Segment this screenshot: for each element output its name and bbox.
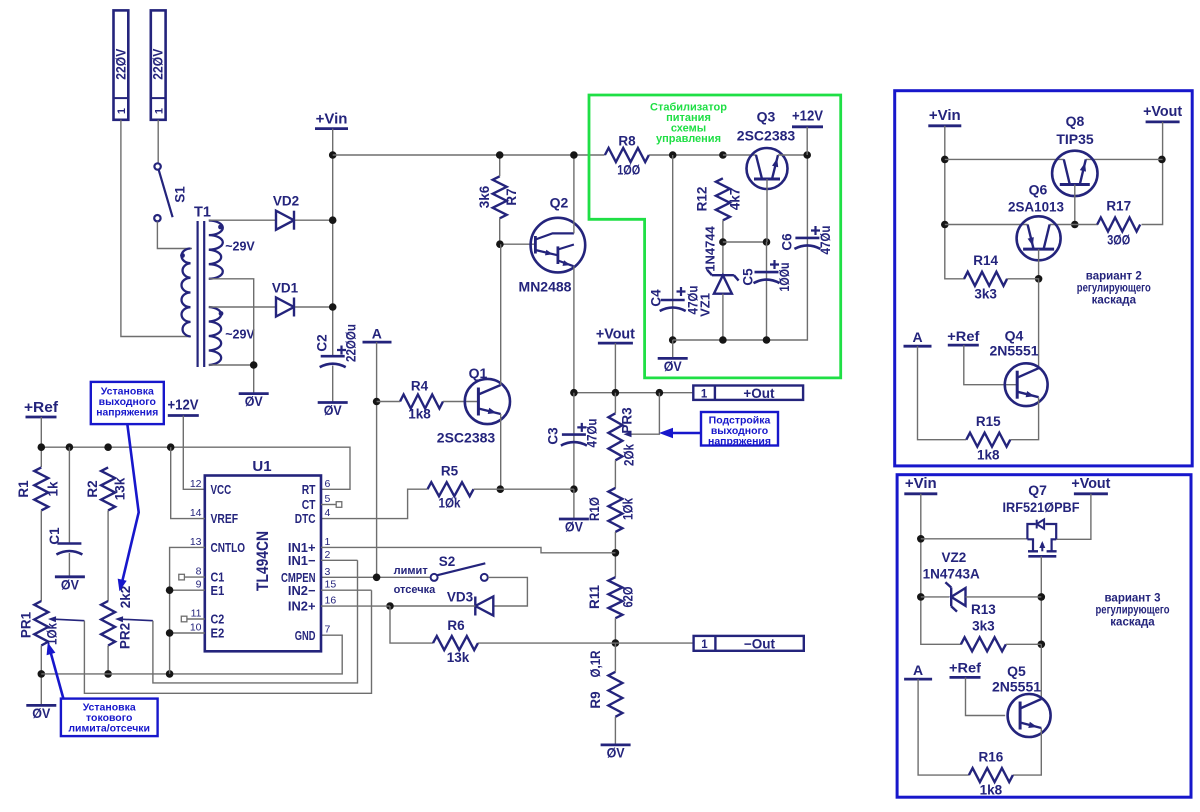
wire +Ref rail to RT <box>41 447 350 489</box>
potentiometer PR2 2k2 <box>101 586 133 649</box>
svg-text:MN2488: MN2488 <box>519 279 572 295</box>
node A box1 <box>904 329 932 346</box>
resistor R15 1k8 <box>966 414 1010 463</box>
svg-text:−Out: −Out <box>744 636 776 651</box>
junction E1 <box>166 586 174 594</box>
svg-text:15: 15 <box>325 579 337 591</box>
capacitor C3 470u <box>546 393 600 490</box>
svg-text:VD2: VD2 <box>273 194 299 209</box>
junction +Out Vout <box>612 389 620 397</box>
junction Ref C1 <box>66 443 74 451</box>
wire winding1 to VD2 <box>209 219 276 221</box>
svg-text:регулирующего: регулирующего <box>1077 282 1151 294</box>
wire R2 bottom to PR2 <box>107 510 109 601</box>
svg-text:+Vout: +Vout <box>1143 103 1182 120</box>
wire E2 stub <box>170 632 205 634</box>
resistor R11 620 <box>587 577 636 618</box>
svg-text:1Øk: 1Øk <box>621 498 636 520</box>
svg-text:1ØØu: 1ØØu <box>777 263 792 292</box>
wire PR1 wiper to IN2- <box>84 590 371 693</box>
wire R5 right <box>474 488 574 490</box>
svg-text:S2: S2 <box>439 554 456 569</box>
junction +Vin rail <box>329 151 337 159</box>
svg-text:VD1: VD1 <box>272 281 299 296</box>
node +Ref main <box>24 399 59 417</box>
junction box1 Vout rail1 <box>1158 156 1166 164</box>
svg-text:1k8: 1k8 <box>977 448 1000 463</box>
wire PR3 wiper <box>630 393 659 435</box>
wire IN1+ to R10 R11 junction <box>321 547 615 552</box>
wire +Vin box1 down <box>945 126 965 279</box>
svg-text:R16: R16 <box>979 750 1004 765</box>
wire Q6 base down <box>1038 249 1040 279</box>
wire Q7 gate down <box>1040 556 1042 644</box>
wire +Vin vertical <box>332 129 334 357</box>
wire Q5 emitter down to R16 <box>1013 728 1041 775</box>
wire IN2+ to VD3 node <box>321 605 390 607</box>
wire VZ1 to bottom rail <box>722 294 724 340</box>
wire X2 to switch S1 <box>157 120 159 163</box>
junction C3 bottom R5 <box>570 485 578 493</box>
svg-text:Q5: Q5 <box>1007 663 1026 679</box>
capacitor C2 2200u <box>315 324 359 367</box>
junction PR2 gnd rail <box>104 670 112 678</box>
svg-text:3: 3 <box>325 566 331 578</box>
svg-text:ØV: ØV <box>664 358 683 374</box>
svg-text:16: 16 <box>325 595 337 607</box>
wire IN2- down <box>321 589 372 591</box>
transistor Q4 2N5551 <box>989 328 1047 407</box>
connector X1 220V <box>113 10 128 119</box>
wire +Out rail <box>574 392 693 394</box>
junction box2 Vin VZ2 <box>917 593 925 601</box>
svg-text:лимита/отсечки: лимита/отсечки <box>68 723 150 735</box>
resistor R10 10k <box>587 488 636 532</box>
svg-text:IN2−: IN2− <box>288 583 316 598</box>
svg-text:2N5551: 2N5551 <box>992 679 1041 695</box>
svg-text:лимит: лимит <box>394 565 429 577</box>
diode VD1 <box>272 281 299 317</box>
junction Q1 emitter R5 <box>497 485 505 493</box>
svg-text:4k7: 4k7 <box>728 188 743 211</box>
svg-text:A: A <box>913 662 923 678</box>
node +Vout box2 <box>1071 475 1110 494</box>
svg-text:A: A <box>372 325 382 341</box>
box variant 2 outline <box>895 91 1192 466</box>
svg-text:47Øu: 47Øu <box>818 226 833 255</box>
svg-text:Q6: Q6 <box>1029 182 1048 198</box>
node +12V left <box>168 396 199 415</box>
wire -Out rail <box>615 642 693 644</box>
svg-text:1ØØ: 1ØØ <box>617 163 640 178</box>
svg-text:Ø,1R: Ø,1R <box>588 650 603 677</box>
wire VREF to Ref rail <box>171 447 205 518</box>
svg-text:DTC: DTC <box>295 511 316 526</box>
resistor R14 3k3 <box>964 253 1007 301</box>
wire A box1 to R15 <box>918 346 967 440</box>
U1 right pin labels <box>281 482 316 643</box>
junction C4 bottom rail <box>669 336 677 344</box>
wire R10 bottom <box>614 532 616 577</box>
svg-text:+Vout: +Vout <box>1071 475 1110 492</box>
svg-text:R5: R5 <box>441 464 459 479</box>
junction Q8 base rail2 <box>1071 221 1079 229</box>
junction VZ1 bottom <box>719 336 727 344</box>
junction +12V rail <box>803 151 811 159</box>
wire R1 bottom to PR1 <box>40 510 42 601</box>
svg-text:8: 8 <box>196 566 202 578</box>
svg-text:Q4: Q4 <box>1005 328 1024 344</box>
junction Ref R1 <box>38 443 46 451</box>
svg-text:IN1−: IN1− <box>288 553 316 568</box>
wire R14 right to Q4 collector <box>1007 279 1038 368</box>
ground 0V C2 <box>318 401 348 404</box>
wire R8 right to C4 node <box>649 154 723 156</box>
resistor R1 1k <box>16 467 61 510</box>
svg-text:ØV: ØV <box>324 402 343 418</box>
wire node A down to CMPEN <box>376 342 378 577</box>
wire S2 to VD3 anode <box>488 577 528 606</box>
wire CNTLO E1 E2 chain <box>170 547 205 674</box>
svg-text:PR3: PR3 <box>620 407 635 434</box>
svg-text:+Vin: +Vin <box>905 475 937 492</box>
wire box1 rail1 right <box>1086 158 1163 160</box>
svg-text:+Vin: +Vin <box>929 107 961 124</box>
wire Q3 emitter to +12V node <box>778 154 807 156</box>
svg-text:22ØV: 22ØV <box>113 49 128 80</box>
svg-text:R9: R9 <box>588 691 603 708</box>
svg-text:+Ref: +Ref <box>947 328 979 344</box>
capacitor C4 470u <box>649 155 701 340</box>
junction box2 Vin Q7 <box>917 535 925 543</box>
svg-text:1: 1 <box>116 108 128 114</box>
svg-text:3k6: 3k6 <box>477 185 492 208</box>
wire +Ref box1 to Q4 base <box>964 345 1017 385</box>
wire VZ2 left <box>921 596 949 598</box>
wire R13 right <box>1006 643 1041 645</box>
svg-text:R11: R11 <box>587 585 602 610</box>
svg-text:S1: S1 <box>173 186 188 203</box>
wire +Vout box2 to Q7 drain <box>1056 494 1091 540</box>
resistor R2 13k <box>85 467 128 510</box>
wire Q1 collector up to Q2 base node <box>500 244 502 385</box>
capacitor C1 <box>47 447 82 577</box>
node +12V green box <box>792 108 823 127</box>
svg-text:9: 9 <box>196 579 202 591</box>
svg-text:GND: GND <box>295 628 316 643</box>
svg-text:~29V: ~29V <box>225 327 255 341</box>
connector +Out <box>693 386 803 401</box>
wire IN1- down <box>321 559 358 561</box>
node A main <box>363 325 392 342</box>
svg-text:PR1: PR1 <box>19 611 34 638</box>
svg-text:3k3: 3k3 <box>974 286 997 301</box>
wire VZ2 right to gate <box>966 596 1042 598</box>
wire gate node down to Q5 collector <box>1040 644 1042 698</box>
svg-text:11: 11 <box>191 608 202 620</box>
junction +Out PR3 wiper <box>656 389 664 397</box>
junction Ref VREF <box>167 443 175 451</box>
wire E1 stub <box>170 589 205 591</box>
junction CMPEN node A <box>373 574 381 582</box>
junction Q2 collector rail <box>570 151 578 159</box>
svg-text:7: 7 <box>325 624 331 636</box>
wire S1 to transformer primary top <box>157 221 192 248</box>
wire IN2+ node down to R6 <box>390 606 433 643</box>
U1 pin 8 C1 nc <box>179 574 205 580</box>
svg-text:C5: C5 <box>741 268 756 286</box>
wire Q1 emitter down <box>500 414 502 489</box>
wire box1 rail1 left <box>945 158 1064 160</box>
svg-text:R1: R1 <box>16 480 31 498</box>
transistor Q7 IRF5210PBF mosfet <box>1003 482 1080 557</box>
svg-text:VD3: VD3 <box>447 590 474 605</box>
svg-text:1N4744: 1N4744 <box>703 225 718 271</box>
svg-text:каскада: каскада <box>1110 616 1155 628</box>
node +Ref box1 <box>947 328 979 345</box>
wire Q7 source rail <box>921 538 1028 540</box>
svg-text:62Ø: 62Ø <box>621 587 636 608</box>
svg-text:13k: 13k <box>447 650 470 665</box>
svg-text:управления: управления <box>656 133 721 145</box>
svg-text:3ØØ: 3ØØ <box>1107 233 1130 248</box>
IC U1 TL494CN box <box>205 458 321 651</box>
svg-text:ØV: ØV <box>32 705 51 721</box>
svg-text:TIP35: TIP35 <box>1056 131 1094 147</box>
wire winding2 bottom to center tap <box>209 365 254 394</box>
zener VZ2 1N4743A <box>923 550 980 612</box>
resistor R16 1k8 <box>969 750 1013 798</box>
ground 0V C1 <box>55 575 85 578</box>
svg-text:C1: C1 <box>47 527 62 545</box>
transistor Q3 2SC2383 <box>737 109 796 190</box>
U1 left pin labels <box>211 482 246 641</box>
wire PR3 bottom to R10 <box>614 460 616 488</box>
svg-text:U1: U1 <box>252 458 271 475</box>
U1 pin numbers left <box>190 478 202 634</box>
svg-text:R13: R13 <box>971 602 996 617</box>
junction rail R12 <box>719 151 727 159</box>
wire +Ref down <box>40 417 42 467</box>
svg-text:3k3: 3k3 <box>972 618 995 633</box>
svg-text:22ØØu: 22ØØu <box>344 324 359 362</box>
callout adjust output voltage <box>659 412 778 447</box>
svg-text:6: 6 <box>325 478 331 490</box>
svg-text:1Øk: 1Øk <box>439 496 461 511</box>
node A box2 <box>904 662 932 679</box>
wire +Vout box1 down <box>1142 122 1163 225</box>
ground 0V PR1 <box>26 704 56 707</box>
diode VD2 <box>273 194 299 230</box>
junction center tap <box>250 361 258 369</box>
wire green box bottom rail <box>673 155 808 340</box>
callout set current limit <box>47 642 158 736</box>
svg-text:R15: R15 <box>976 414 1001 429</box>
resistor R17 300 <box>1097 198 1140 247</box>
ground 0V transformer <box>239 392 269 395</box>
svg-text:E1: E1 <box>211 583 225 598</box>
svg-text:+Vout: +Vout <box>596 325 635 342</box>
ground 0V R9 <box>601 744 631 747</box>
callout set output voltage <box>91 382 164 591</box>
switch S1 <box>154 163 187 221</box>
wire +Ref box2 to Q5 base <box>966 677 1006 715</box>
wire Q8 base down <box>1074 185 1076 225</box>
junction Q2 base node <box>496 240 504 248</box>
svg-text:1k8: 1k8 <box>980 783 1003 798</box>
wire R7 bottom to Q2 base <box>500 218 536 244</box>
transistor Q6 2SA1013 <box>1008 182 1064 261</box>
green box title <box>650 101 727 145</box>
resistor R7 3k6 <box>477 176 519 218</box>
wire Q4 emitter down to R15 <box>1010 397 1038 440</box>
wire X1 to transformer primary bottom <box>121 120 191 337</box>
box variant 3 outline <box>897 475 1191 798</box>
svg-text:12: 12 <box>190 478 202 490</box>
svg-text:+Vin: +Vin <box>316 111 348 128</box>
junction R12 VZ1 node <box>719 238 727 246</box>
U1 pin numbers right <box>325 478 337 636</box>
svg-text:отсечка: отсечка <box>394 584 437 596</box>
svg-text:ØV: ØV <box>565 519 584 535</box>
svg-text:5: 5 <box>325 493 331 505</box>
U1 pin 5 CT nc <box>321 502 342 508</box>
svg-text:1: 1 <box>153 108 165 114</box>
junction Q6 base R14 <box>1035 275 1043 283</box>
wire R4 right to Q1 base <box>443 401 478 403</box>
junction box1 rail2 <box>941 221 949 229</box>
junction E1E2 gnd rail <box>166 670 174 678</box>
capacitor C5 100u <box>741 242 793 340</box>
resistor R9 0,1R <box>588 650 622 717</box>
wire R12 bottom to zener node <box>722 220 724 275</box>
svg-text:R2: R2 <box>85 480 100 497</box>
capacitor C6 470u <box>780 226 834 255</box>
wire R4 left <box>377 401 400 403</box>
wire R5 left to DTC <box>321 489 428 518</box>
PR1 wiper <box>48 616 84 622</box>
wire +Vout down <box>614 343 616 393</box>
svg-text:TL494CN: TL494CN <box>253 531 272 591</box>
svg-text:R7: R7 <box>504 188 519 205</box>
wire +12V to VCC <box>183 416 205 490</box>
junction C5 bottom <box>763 336 771 344</box>
node +Vout box1 <box>1143 103 1182 122</box>
svg-text:R14: R14 <box>973 253 998 268</box>
wire zener node to Q3 base <box>723 241 767 243</box>
svg-text:каскада: каскада <box>1092 294 1137 306</box>
svg-text:1: 1 <box>701 388 708 400</box>
svg-text:2N5551: 2N5551 <box>989 342 1038 358</box>
svg-text:+12V: +12V <box>792 108 823 125</box>
svg-text:R8: R8 <box>618 134 636 149</box>
svg-text:R1Ø: R1Ø <box>587 497 602 521</box>
transistor Q5 2N5551 <box>992 663 1051 737</box>
svg-text:E2: E2 <box>211 626 225 641</box>
svg-text:2: 2 <box>325 549 331 561</box>
wire Q2 emitter down to +Out rail <box>573 266 575 393</box>
PR2 wiper <box>115 616 153 622</box>
junction IN2+ VD3 R6 <box>386 602 394 610</box>
svg-text:ØV: ØV <box>607 744 626 760</box>
svg-text:14: 14 <box>190 507 202 519</box>
junction gate R13 <box>1038 641 1046 649</box>
label variant 3 <box>1096 592 1170 628</box>
transistor Q8 TIP35 <box>1052 113 1097 196</box>
node +Vin box1 <box>928 107 961 126</box>
svg-text:PR2: PR2 <box>118 623 133 649</box>
svg-text:+Ref: +Ref <box>949 659 981 675</box>
svg-text:R6: R6 <box>447 618 465 633</box>
svg-text:вариант 2: вариант 2 <box>1086 270 1142 282</box>
svg-text:C3: C3 <box>546 427 561 445</box>
wire C4 ground stub <box>672 340 674 358</box>
svg-text:~29V: ~29V <box>225 239 255 253</box>
svg-text:2Øk: 2Øk <box>622 444 637 466</box>
wire Q3 base down <box>766 179 768 242</box>
svg-text:VREF: VREF <box>211 511 239 526</box>
svg-text:C4: C4 <box>649 289 664 307</box>
svg-text:IN2+: IN2+ <box>288 599 316 614</box>
svg-text:2SC2383: 2SC2383 <box>437 430 496 446</box>
ground 0V green box <box>658 357 688 360</box>
wire PR1 bottom <box>40 646 42 706</box>
svg-text:10: 10 <box>190 622 202 634</box>
switch S2 <box>431 554 488 581</box>
svg-text:R12: R12 <box>695 187 710 212</box>
wire main top rail <box>333 154 605 156</box>
wire R9 bottom <box>614 717 616 745</box>
node +Ref box2 <box>949 659 981 677</box>
wire CMPEN to S2 <box>321 576 431 578</box>
junction +Out Q2emitter C3 <box>570 389 578 397</box>
svg-text:CT: CT <box>302 497 316 512</box>
ground 0V C3 <box>559 518 589 521</box>
U1 pin 11 C2 nc <box>181 616 205 622</box>
svg-text:CNTLO: CNTLO <box>211 540 246 555</box>
wire winding1 bottom to center tap <box>209 279 254 365</box>
wire C3 ground stub <box>573 489 575 519</box>
junction +Vin VD2 <box>329 216 337 224</box>
wire C2 to ground <box>332 366 334 403</box>
resistor R12 4k7 <box>695 178 743 220</box>
transistor Q1 2SC2383 <box>437 365 510 446</box>
svg-text:ØV: ØV <box>245 393 264 409</box>
resistor R13 3k3 <box>961 602 1006 651</box>
wire PR3 top <box>614 393 616 414</box>
junction Q3 base C5 <box>763 238 771 246</box>
svg-text:2SC2383: 2SC2383 <box>737 128 796 144</box>
svg-text:Q7: Q7 <box>1028 482 1047 498</box>
svg-text:IRF521ØPBF: IRF521ØPBF <box>1003 499 1080 515</box>
junction -Out node <box>612 639 620 647</box>
wire +12V down <box>806 127 808 155</box>
svg-text:R17: R17 <box>1106 198 1131 213</box>
svg-text:13: 13 <box>190 536 202 548</box>
svg-text:Q2: Q2 <box>550 195 569 211</box>
wire R6 right <box>478 642 615 644</box>
resistor R8 100 <box>605 134 649 178</box>
wire winding2 to VD1 <box>209 306 276 308</box>
junction PR1 gnd rail <box>38 670 46 678</box>
svg-text:4: 4 <box>325 507 331 519</box>
potentiometer PR3 20k <box>608 407 636 466</box>
svg-text:2SA1013: 2SA1013 <box>1008 199 1064 215</box>
svg-text:VZ2: VZ2 <box>942 550 967 565</box>
label variant 2 <box>1077 270 1151 306</box>
wire VD2 cathode to +Vin node <box>295 219 333 221</box>
junction R10 R11 IN1+ <box>612 549 620 557</box>
